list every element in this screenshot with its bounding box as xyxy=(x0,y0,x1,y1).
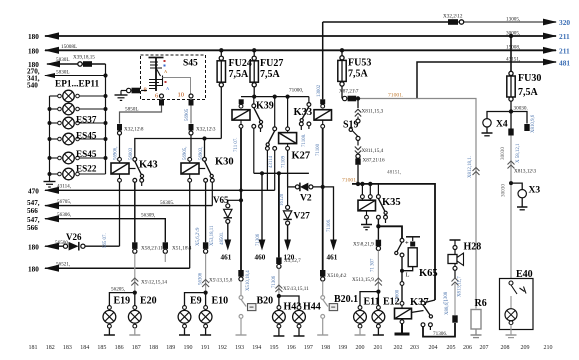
svg-text:56521,: 56521, xyxy=(56,261,70,267)
E40 switch xyxy=(509,281,526,294)
ground at S45 pin 8 with connector xyxy=(115,88,148,101)
node lamp bus left row y=174 xyxy=(48,172,52,176)
wire 71001 trunk line xyxy=(352,184,435,300)
connector X51,18/4 xyxy=(163,242,168,262)
svg-text:566: 566 xyxy=(27,207,38,215)
svg-text:208: 208 xyxy=(501,345,510,351)
connector X812,18,1 chevron xyxy=(473,168,480,176)
connector chevron X5/13,15,11 xyxy=(275,285,282,292)
switch S45 dashed box xyxy=(141,55,206,100)
svg-text:10: 10 xyxy=(178,92,185,99)
diode V27 xyxy=(283,187,291,251)
wire 71600 to K37 xyxy=(400,282,404,302)
connector X5/8,21,9 xyxy=(376,240,381,251)
svg-text:X811,15,3: X811,15,3 xyxy=(362,109,384,115)
svg-text:461: 461 xyxy=(221,254,232,262)
svg-text:X510,4\2: X510,4\2 xyxy=(327,273,347,279)
svg-text:43114: 43114 xyxy=(269,155,274,168)
svg-text:X 58,12,1: X 58,12,1 xyxy=(516,143,521,163)
svg-text:K35: K35 xyxy=(382,197,401,208)
svg-text:7,5A: 7,5A xyxy=(229,69,250,80)
svg-text:X5\13,15,11: X5\13,15,11 xyxy=(283,286,309,292)
svg-text:71306.: 71306. xyxy=(433,331,447,337)
svg-text:56305.: 56305. xyxy=(160,200,174,206)
svg-text:X32,2\12: X32,2\12 xyxy=(443,14,463,20)
svg-text:E9: E9 xyxy=(190,296,202,307)
svg-text:71001.: 71001. xyxy=(388,93,404,99)
svg-text:186: 186 xyxy=(115,345,124,351)
arrow left 180 (rail 211a) xyxy=(44,32,59,39)
connector chevron on E10 feed xyxy=(202,280,209,288)
svg-text:7,5A: 7,5A xyxy=(348,69,369,80)
lamp bus right xyxy=(105,64,107,174)
wire 71000 line xyxy=(241,96,309,98)
svg-text:13005,: 13005, xyxy=(506,17,520,23)
svg-text:H28: H28 xyxy=(464,242,482,253)
diode V2 line xyxy=(288,183,337,251)
node H43/H44 junction xyxy=(277,294,281,298)
svg-text:H44: H44 xyxy=(303,302,321,313)
wire E9 branch xyxy=(185,293,206,306)
diode V65 branch xyxy=(224,200,241,250)
svg-text:X51,18\4: X51,18\4 xyxy=(172,246,192,252)
svg-text:B20.1: B20.1 xyxy=(334,294,358,305)
node K27 pivot riser xyxy=(273,95,277,99)
svg-text:71306: 71306 xyxy=(272,275,277,288)
svg-text:K27: K27 xyxy=(292,151,311,162)
wire top rail 320 xyxy=(323,21,556,23)
svg-text:56003: 56003 xyxy=(129,147,134,160)
svg-text:K43: K43 xyxy=(139,160,158,171)
node 270/341/540 joins lamp bus xyxy=(103,73,107,77)
EP lamp 2 xyxy=(50,103,106,115)
svg-text:X810,9,6: X810,9,6 xyxy=(531,114,536,133)
lamp E12 xyxy=(372,292,385,335)
wire top rail 211a xyxy=(45,35,556,37)
switch B20.1 xyxy=(317,281,328,335)
wire 56306 line xyxy=(44,215,165,242)
S45 internal wire to pin 10 xyxy=(163,78,191,95)
svg-text:E19: E19 xyxy=(114,296,131,307)
wire gray up to H28 xyxy=(454,284,456,316)
svg-text:30030: 30030 xyxy=(500,147,506,160)
relay K33 coil xyxy=(314,99,332,270)
svg-text:210: 210 xyxy=(544,345,553,351)
node FU27/71000 xyxy=(252,95,256,99)
connector X510,18,4 (B20 feed) xyxy=(238,270,243,281)
svg-text:K30: K30 xyxy=(215,157,234,168)
svg-text:K65: K65 xyxy=(419,268,438,279)
wire 56521/180 line from K30 coil xyxy=(44,265,190,272)
E40 lamp xyxy=(505,296,517,338)
svg-text:43151,: 43151, xyxy=(506,57,520,63)
svg-text:V2: V2 xyxy=(300,194,312,204)
lamp E19 xyxy=(103,306,116,335)
wire E10 feed gray xyxy=(205,253,207,292)
connector X88,6,1 on H28 wire xyxy=(452,315,457,322)
wire 481 line xyxy=(417,62,556,99)
node FU30 output 30030 xyxy=(509,109,513,113)
connector chevron X5/13,15,9 xyxy=(375,278,382,286)
svg-text:56905,: 56905, xyxy=(183,147,188,160)
diode V26 and 56500/180 line xyxy=(44,242,120,251)
lamp unit E40 box xyxy=(500,279,534,330)
relay K35 coil xyxy=(358,184,376,230)
svg-text:K39: K39 xyxy=(256,101,274,112)
connector X813,12,3 chevron on 30030 wire xyxy=(508,161,515,169)
svg-text:ES22: ES22 xyxy=(76,164,97,174)
svg-text:5830L: 5830L xyxy=(56,57,70,63)
svg-text:196: 196 xyxy=(287,345,296,351)
S45 pin 10 terminal and wire to K30 xyxy=(189,94,194,157)
svg-text:191: 191 xyxy=(201,345,210,351)
svg-text:195: 195 xyxy=(270,345,279,351)
svg-text:56905: 56905 xyxy=(185,108,190,121)
svg-text:71600: 71600 xyxy=(396,289,401,302)
relay K37 contact xyxy=(411,300,435,330)
connector X811,15,3 chevron xyxy=(355,109,361,119)
svg-text:X87,21\7: X87,21\7 xyxy=(339,89,359,95)
svg-text:180: 180 xyxy=(28,244,39,252)
EP lamp 1 xyxy=(50,90,106,102)
connector X3,12,7 xyxy=(276,257,281,268)
switch S19 contact xyxy=(349,119,360,146)
node B20 feed crossing 470 line xyxy=(239,189,243,193)
svg-text:S45: S45 xyxy=(183,59,198,69)
svg-text:X5,6,2\:9: X5,6,2\:9 xyxy=(196,227,201,246)
svg-text:X811,15,4: X811,15,4 xyxy=(362,148,384,154)
svg-text:71 307: 71 307 xyxy=(371,258,376,272)
svg-text:E10: E10 xyxy=(212,296,229,307)
svg-text:207: 207 xyxy=(480,345,489,351)
connector X5/12,15,14 chevron xyxy=(131,278,138,286)
svg-text:184: 184 xyxy=(80,345,89,351)
left margin labels xyxy=(27,33,40,90)
svg-text:320: 320 xyxy=(559,18,570,27)
svg-text:190: 190 xyxy=(184,345,193,351)
svg-text:206: 206 xyxy=(463,345,472,351)
svg-text:201: 201 xyxy=(374,345,383,351)
wire 13002 riser xyxy=(322,22,324,99)
wire 71001 gray from X87,21/7 to X812 and R6 xyxy=(360,99,476,309)
node lamp bus right row y=109 xyxy=(104,107,108,111)
svg-text:461: 461 xyxy=(327,254,338,262)
node H43/H44 feed branch xyxy=(277,171,281,175)
svg-text:203: 203 xyxy=(410,345,419,351)
svg-text:FU30: FU30 xyxy=(518,73,541,84)
svg-text:56205,: 56205, xyxy=(111,287,125,293)
node FU24 top xyxy=(219,48,223,52)
node S19 to trunk xyxy=(356,182,360,186)
svg-text:B20: B20 xyxy=(257,296,274,307)
arrow right 481 xyxy=(543,59,557,66)
svg-text:FU24: FU24 xyxy=(229,58,252,69)
relay K43 coil xyxy=(111,135,129,246)
node lamp bus left row y=139 xyxy=(48,137,52,141)
svg-text:30030: 30030 xyxy=(501,184,507,197)
S45 pin 6 terminal and wire 5850L to K43 xyxy=(117,94,164,135)
connectors X5,6,2/9 X53,18,11 (E10 feed) xyxy=(203,242,208,253)
svg-text:198: 198 xyxy=(321,345,330,351)
svg-text:204: 204 xyxy=(429,345,438,351)
svg-text:X87,21\16: X87,21\16 xyxy=(363,158,385,164)
fuse FU24 xyxy=(217,50,225,138)
svg-text:X3: X3 xyxy=(529,186,541,196)
arrow right 211b xyxy=(543,47,557,54)
svg-text:FU53: FU53 xyxy=(348,58,371,69)
svg-text:180: 180 xyxy=(28,48,39,56)
relay K35 contact xyxy=(377,184,388,240)
fuse FU30 xyxy=(507,36,515,135)
svg-text:V27: V27 xyxy=(294,212,311,222)
wire 5830L line with connector X39,18/15 xyxy=(46,61,106,68)
svg-text:71000,: 71000, xyxy=(289,88,303,94)
svg-text:7,5A: 7,5A xyxy=(260,69,281,80)
relay K39 coil xyxy=(232,99,250,270)
svg-text:ES45: ES45 xyxy=(76,131,97,141)
lamp bus left xyxy=(44,96,56,187)
connector X87,21/7 xyxy=(343,96,357,102)
arrow right 211a xyxy=(543,33,557,40)
node lamp bus left row y=158 xyxy=(48,156,52,160)
svg-text:56306: 56306 xyxy=(199,272,204,285)
svg-text:V26: V26 xyxy=(66,232,82,242)
svg-text:X58,21\11: X58,21\11 xyxy=(141,246,163,252)
node V2 line / B20.1 feed crossing xyxy=(321,185,325,189)
svg-text:X4: X4 xyxy=(496,120,508,130)
right margin labels xyxy=(559,18,570,68)
connector X58,12,1 on 30030 wire xyxy=(508,129,513,136)
svg-text:470: 470 xyxy=(28,188,39,196)
node V65 tap xyxy=(239,198,243,202)
node E9/E10 junction xyxy=(204,291,208,295)
node lamp bus left row y=109 xyxy=(48,107,52,111)
lamp H43 xyxy=(273,296,286,336)
svg-text:202: 202 xyxy=(394,345,403,351)
node E19/E20 junction xyxy=(133,291,137,295)
connector chevron X813,12,7 xyxy=(452,278,459,286)
svg-text:5830L: 5830L xyxy=(56,70,70,76)
svg-text:71106.: 71106. xyxy=(327,219,332,232)
svg-text:194: 194 xyxy=(252,345,261,351)
svg-text:X32,12\3: X32,12\3 xyxy=(196,127,216,133)
wire K relay feed line y138.5 xyxy=(135,139,222,158)
svg-text:199: 199 xyxy=(338,345,347,351)
svg-text:X53,18,11: X53,18,11 xyxy=(210,225,215,246)
svg-text:547,: 547, xyxy=(27,216,40,224)
relay K37 coil xyxy=(395,302,412,335)
svg-text:7,5A: 7,5A xyxy=(518,87,539,98)
svg-text:X513,15,9: X513,15,9 xyxy=(352,277,374,283)
wire 56705/56305 line xyxy=(44,202,212,209)
resistor R6 xyxy=(471,310,482,338)
relay K30 contact xyxy=(199,157,214,242)
svg-text:193: 193 xyxy=(235,345,244,351)
svg-text:56306,: 56306, xyxy=(57,212,71,218)
svg-text:197: 197 xyxy=(304,345,313,351)
svg-text:X813,12,7: X813,12,7 xyxy=(458,276,463,297)
relay K39 contact xyxy=(252,97,263,174)
svg-text:X39,18,15: X39,18,15 xyxy=(73,55,95,61)
arrow right 320 xyxy=(543,19,557,26)
svg-text:FU27: FU27 xyxy=(260,58,283,69)
node lamp bus right row y=158 xyxy=(104,156,108,160)
svg-text:187: 187 xyxy=(132,345,141,351)
svg-text:56903,: 56903, xyxy=(199,147,204,160)
relay K30 coil xyxy=(181,157,199,268)
lamp E9 xyxy=(178,306,191,335)
svg-text:48151,: 48151, xyxy=(387,170,401,176)
svg-text:180: 180 xyxy=(28,33,39,41)
svg-text:211: 211 xyxy=(559,32,570,41)
svg-text:71109: 71109 xyxy=(282,155,287,168)
relay K65 coil xyxy=(402,237,420,271)
connector X811,15,4 chevron xyxy=(355,147,361,154)
EP lamp 5 (ES45) xyxy=(50,152,106,164)
svg-text:X5\8,21,9: X5\8,21,9 xyxy=(353,242,374,248)
svg-text:71001.: 71001. xyxy=(342,178,358,184)
svg-text:180: 180 xyxy=(28,266,39,274)
svg-text:71308: 71308 xyxy=(444,291,449,304)
top wire number labels xyxy=(56,14,520,76)
node K30 pivot riser xyxy=(202,136,206,140)
wire gray to H43/H44 xyxy=(278,269,280,297)
node lamp bus left row y=123 xyxy=(48,121,52,125)
svg-text:X32,12\8: X32,12\8 xyxy=(124,127,144,133)
horn H28 xyxy=(448,240,464,278)
svg-text:E40: E40 xyxy=(516,269,533,280)
svg-text:X812,18,1.: X812,18,1. xyxy=(468,156,473,178)
fuse FU53 xyxy=(338,50,346,98)
EP lamp 4 (ES45) xyxy=(50,133,106,145)
svg-text:56309,: 56309, xyxy=(141,213,155,219)
svg-text:192: 192 xyxy=(218,345,227,351)
relay K27 coil xyxy=(279,97,297,187)
svg-text:E20: E20 xyxy=(140,296,157,307)
svg-text:71306: 71306 xyxy=(256,233,261,246)
svg-text:30005,: 30005, xyxy=(506,31,520,37)
svg-text:189: 189 xyxy=(166,345,175,351)
svg-text:56705,: 56705, xyxy=(57,199,71,205)
relay K27 contact (mirrored) xyxy=(266,97,277,191)
lamp E20 xyxy=(128,293,141,335)
connector X4 xyxy=(482,112,512,136)
svg-text:460: 460 xyxy=(255,254,266,262)
svg-text:V65: V65 xyxy=(213,195,229,205)
svg-text:X813,12\3: X813,12\3 xyxy=(514,169,536,175)
fuse FU27 xyxy=(250,50,258,96)
svg-text:211: 211 xyxy=(559,47,570,56)
lamp E10 xyxy=(199,293,212,335)
svg-text:188: 188 xyxy=(149,345,158,351)
node FU53 top xyxy=(340,48,344,52)
svg-text:48501.: 48501. xyxy=(220,232,225,245)
switch S19 chain xyxy=(356,96,360,108)
lamp H44 xyxy=(293,306,306,336)
node K35 coil risers xyxy=(360,182,364,186)
arrow left 180 (rail 211b) xyxy=(44,47,59,54)
svg-text:43114,: 43114, xyxy=(57,184,71,190)
svg-text:13002: 13002 xyxy=(317,84,322,97)
node lamp bus right row y=96 xyxy=(104,94,108,98)
EP lamp 3 (ES37) xyxy=(50,117,106,129)
svg-text:120: 120 xyxy=(284,254,295,262)
svg-text:185: 185 xyxy=(97,345,106,351)
svg-text:5850L: 5850L xyxy=(125,107,139,113)
EP lamp 6 (ES22) xyxy=(50,168,106,180)
node lamp bus right row y=123 xyxy=(104,121,108,125)
switch B20 xyxy=(236,281,247,335)
node junction rail211a/FU30 riser xyxy=(509,34,513,38)
relay K33 contact (mirrored) xyxy=(299,97,310,130)
svg-text:EP1...EP11: EP1...EP11 xyxy=(55,80,100,90)
svg-text:183: 183 xyxy=(63,345,72,351)
svg-text:209: 209 xyxy=(521,345,530,351)
node K27 coil riser xyxy=(286,95,290,99)
svg-text:181: 181 xyxy=(29,345,38,351)
svg-text:ES37: ES37 xyxy=(76,115,97,125)
svg-text:566: 566 xyxy=(27,224,38,232)
svg-text:711 07.: 711 07. xyxy=(234,138,239,153)
wire top rail 211b xyxy=(45,49,556,51)
svg-text:205: 205 xyxy=(447,345,456,351)
svg-text:16120: 16120 xyxy=(280,193,285,206)
wire H43/H44 feed xyxy=(278,173,280,257)
svg-text:547,: 547, xyxy=(27,199,40,207)
switch S45 internal mechanism xyxy=(149,58,164,92)
svg-text:15008,: 15008, xyxy=(506,45,520,51)
wire K37 out to H28 71306 xyxy=(423,323,455,337)
svg-text:71108.: 71108. xyxy=(302,134,307,147)
connector X510,4/2 (B20.1 feed) xyxy=(320,270,325,281)
wire 43114/470 line xyxy=(44,187,275,194)
svg-text:15008L: 15008L xyxy=(61,44,77,50)
svg-text:R6: R6 xyxy=(475,298,487,309)
svg-text:56906,: 56906, xyxy=(114,147,119,160)
relay K43 contact xyxy=(129,157,144,242)
svg-text:X5\12,15,14: X5\12,15,14 xyxy=(141,280,167,286)
connector X87,21/16 xyxy=(355,154,360,184)
connector X3 xyxy=(509,181,527,210)
wire K35 out to K65 xyxy=(378,226,402,238)
svg-text:565 07.: 565 07. xyxy=(103,233,108,248)
node E11/E12 junction xyxy=(376,290,380,294)
svg-text:540: 540 xyxy=(27,82,38,90)
wire E20 feed gray xyxy=(134,253,136,292)
wire 30030 gray down to E40 xyxy=(510,136,512,279)
wire K39/K33 output line y173.3 xyxy=(254,172,309,174)
node K35 out to K65 xyxy=(376,224,380,228)
svg-text:+: + xyxy=(405,240,409,247)
node K65 L junction xyxy=(400,269,404,273)
connector X32,2/12 on 320 rail xyxy=(448,19,464,25)
lamp E11 xyxy=(354,306,367,335)
svg-text:ES45: ES45 xyxy=(76,149,97,159)
svg-text:X5\13,15,8: X5\13,15,8 xyxy=(209,278,233,284)
wire 460 arrow xyxy=(259,173,266,250)
connector X58,21,11 (E20 feed) xyxy=(132,242,137,253)
svg-text:L: L xyxy=(406,272,410,279)
node FU27 top xyxy=(252,48,256,52)
relay K65 contact side xyxy=(395,238,404,281)
wire 270/341/540 line xyxy=(44,73,106,78)
ruler coordinate scale 181-210 xyxy=(29,345,553,351)
node 460 branch xyxy=(260,171,264,175)
svg-text:481: 481 xyxy=(559,59,570,68)
svg-text:30030.: 30030. xyxy=(514,106,528,112)
connector X810,9,6 xyxy=(511,112,530,132)
node lamp bus right row y=139 xyxy=(104,137,108,141)
